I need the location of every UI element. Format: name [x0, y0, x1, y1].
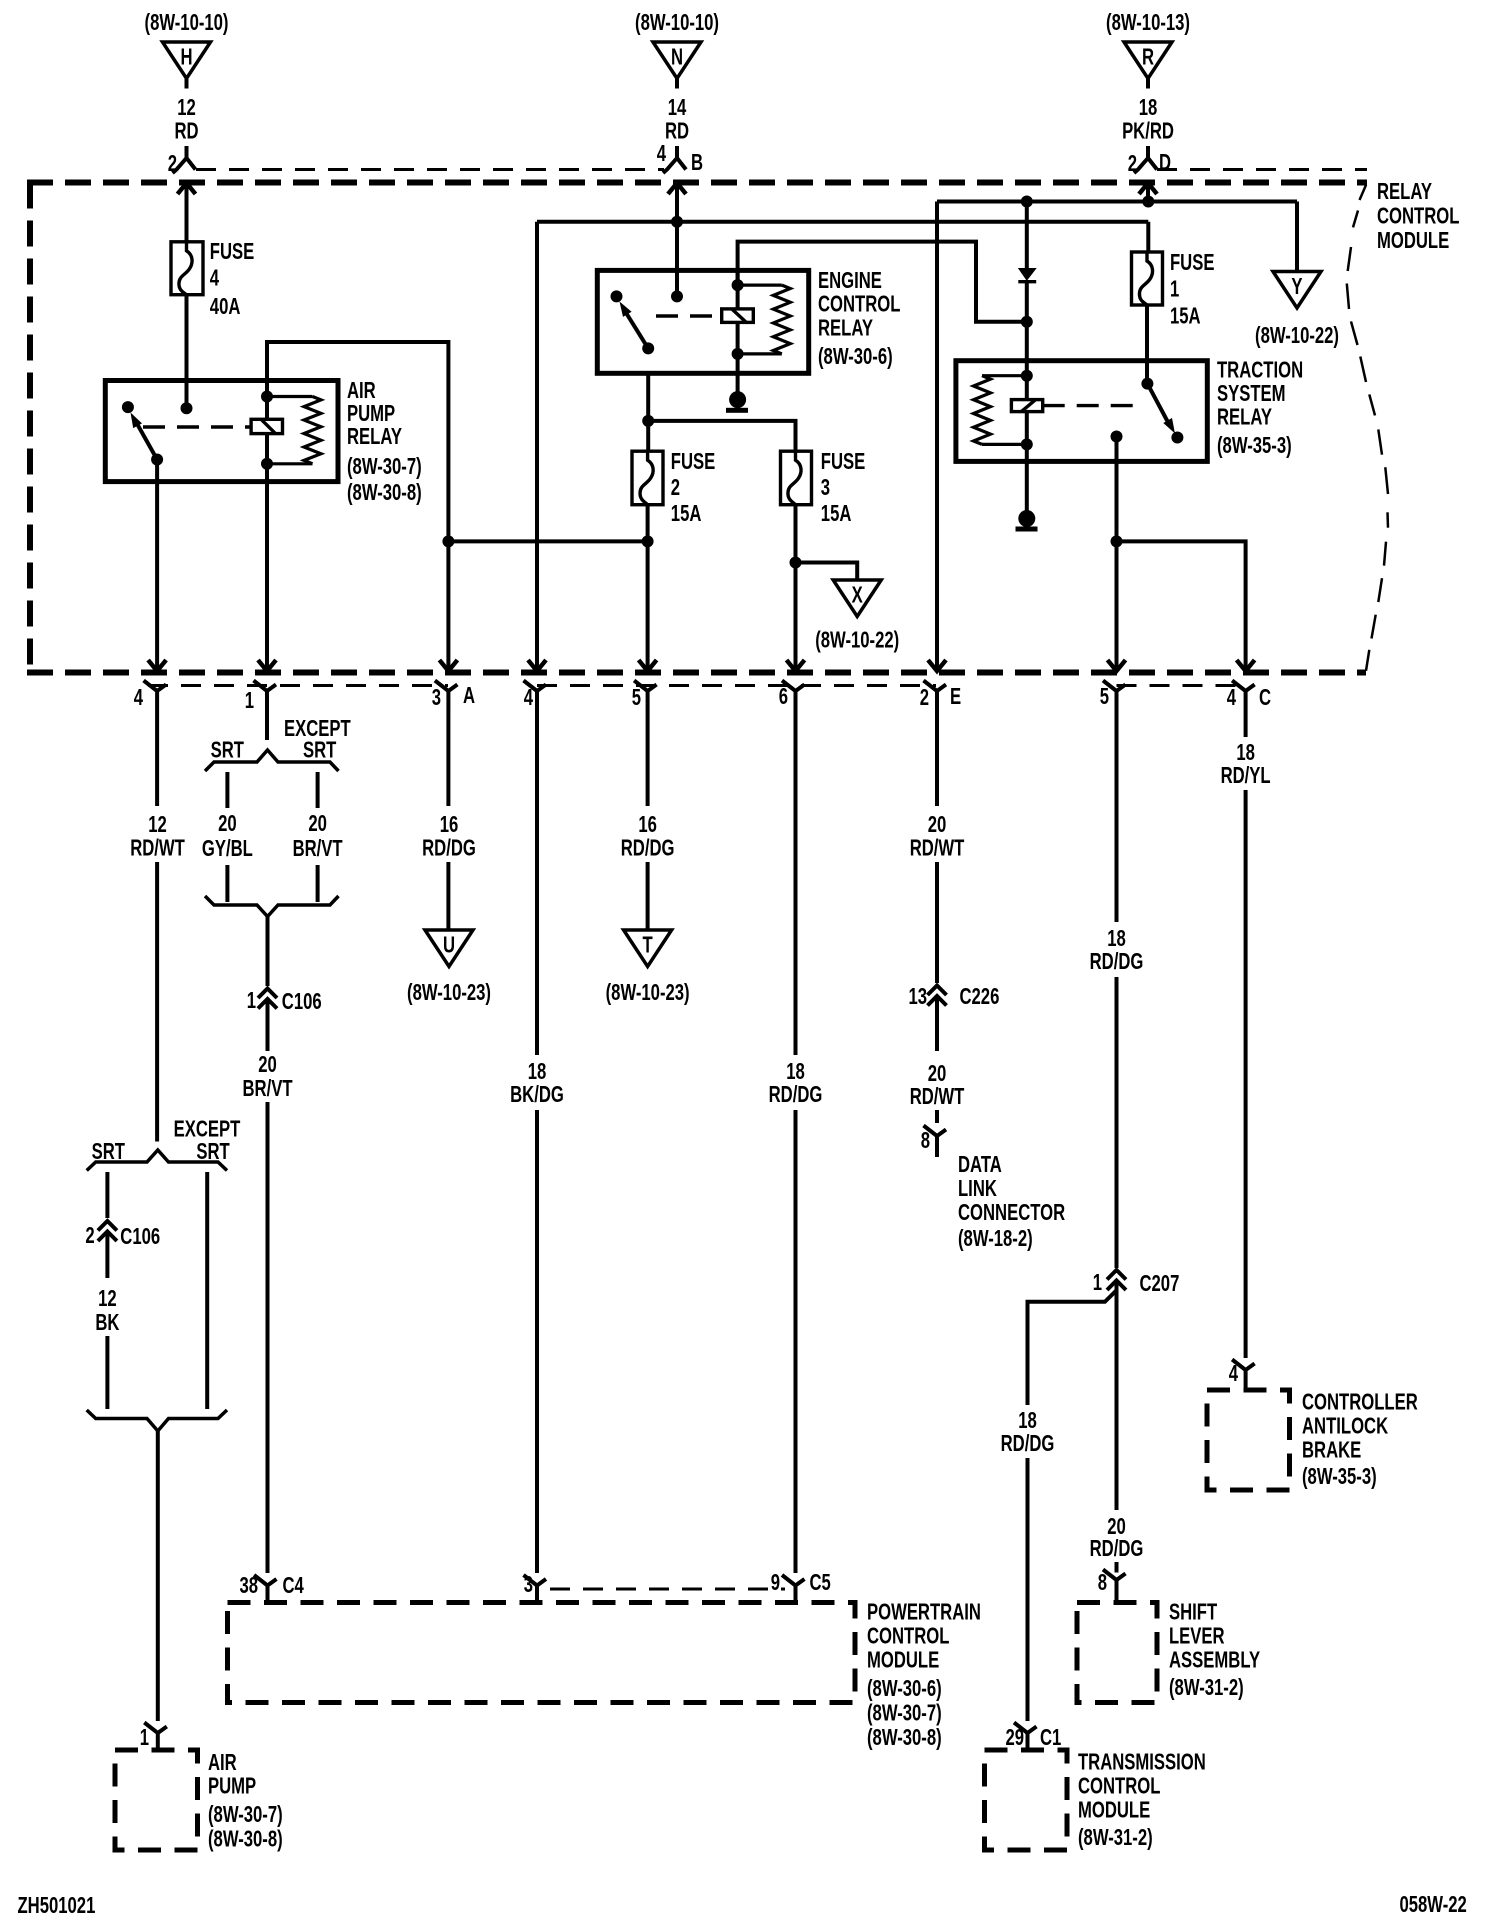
SRT / EXCEPT SRT merge brace (air pump wire)	[87, 1410, 227, 1431]
svg-text:2: 2	[85, 1223, 94, 1248]
component box: AIR PUMP	[115, 1750, 198, 1850]
component box: TRANSMISSION CONTROL MODULE	[985, 1750, 1068, 1850]
svg-text:4: 4	[1229, 1361, 1239, 1386]
svg-text:15A: 15A	[821, 501, 852, 526]
fuse F2 (FUSE 2 15A)	[632, 451, 663, 505]
module bottom pin 5 (fuse 2 output) connector	[634, 681, 657, 713]
junction fuse 2 / fuse 3 feed	[642, 415, 654, 427]
svg-text:16: 16	[638, 812, 657, 837]
inline connector C207 pin 1	[1093, 1270, 1180, 1297]
svg-text:RD/WT: RD/WT	[910, 1084, 965, 1109]
wire node B down to engine control relay	[675, 183, 679, 296]
svg-text:20: 20	[928, 812, 947, 837]
svg-text:RD/DG: RD/DG	[769, 1082, 823, 1107]
svg-text:LINK: LINK	[958, 1176, 997, 1201]
svg-text:2: 2	[920, 685, 929, 710]
svg-text:(8W-30-7): (8W-30-7)	[867, 1701, 942, 1726]
svg-text:(8W-35-3): (8W-35-3)	[1302, 1464, 1377, 1489]
svg-text:18: 18	[786, 1059, 805, 1084]
wire branch C207 to TCM (L path)	[1028, 1291, 1117, 1406]
svg-text:(8W-10-10): (8W-10-10)	[145, 10, 229, 35]
svg-text:RD: RD	[174, 119, 198, 144]
component box: SHIFT LEVER ASSEMBLY	[1077, 1603, 1157, 1703]
connector dashed line at module bottom (pins 5-4C)	[1117, 684, 1246, 687]
connector dashed line at PCM top	[550, 1588, 785, 1591]
arrow into module at node H	[178, 183, 196, 194]
module bottom pin 1 (air pump relay coil) connector	[254, 681, 277, 713]
svg-text:(8W-30-6): (8W-30-6)	[867, 1676, 942, 1701]
wire SRT branch leg	[105, 1172, 109, 1218]
wire branch to module pin 4 C	[1117, 541, 1246, 671]
svg-text:CONNECTOR: CONNECTOR	[958, 1200, 1065, 1225]
svg-text:U: U	[443, 933, 455, 958]
label POWERTRAIN CONTROL MODULE (8W-30-6) (8W-30-7) (8W-30-8)	[867, 1600, 981, 1751]
svg-text:Y: Y	[1291, 274, 1302, 299]
wire SRT leg, 20 GY/BL	[202, 772, 253, 902]
relay control module border (top, dashed)	[27, 180, 1367, 186]
svg-text:RELAY: RELAY	[1217, 405, 1272, 430]
svg-text:(8W-30-8): (8W-30-8)	[867, 1725, 942, 1750]
wire diode to junction	[1025, 282, 1029, 322]
relay control module border (left, dashed)	[27, 183, 33, 676]
svg-text:18: 18	[1139, 95, 1158, 120]
svg-text:18: 18	[1018, 1408, 1037, 1433]
wire pin 4 C down, 18 RD/YL, to controller antilock brake	[1221, 712, 1271, 1358]
wire H feed down to fuse 4	[185, 183, 189, 242]
svg-text:RELAY: RELAY	[818, 316, 873, 341]
module top pin 2, node D	[1128, 146, 1171, 177]
wire node D down to junction	[1146, 183, 1150, 202]
svg-text:SRT: SRT	[196, 1139, 230, 1164]
svg-text:C1: C1	[1040, 1725, 1061, 1750]
off-page connector N (8W-10-10)	[635, 10, 719, 78]
svg-text:BRAKE: BRAKE	[1302, 1438, 1361, 1463]
svg-text:(8W-30-7): (8W-30-7)	[347, 454, 422, 479]
arrow out of module at pin 4 (air pump relay output)	[148, 660, 166, 671]
wire H to module pin 2, 12 RD	[174, 79, 198, 145]
module bottom pin 2, node E connector	[924, 681, 947, 713]
wire merge to air pump	[156, 1431, 160, 1721]
wire junction down to traction relay coil	[1025, 322, 1029, 376]
svg-text:SRT: SRT	[211, 738, 245, 763]
svg-text:3: 3	[524, 1572, 533, 1597]
svg-text:2: 2	[1128, 151, 1137, 176]
svg-text:POWERTRAIN: POWERTRAIN	[867, 1600, 981, 1625]
wire fuse 3 to module pin 6	[794, 505, 798, 671]
label CONTROLLER ANTILOCK BRAKE (8W-35-3)	[1302, 1390, 1418, 1490]
svg-text:FUSE: FUSE	[210, 239, 254, 264]
svg-text:RD: RD	[665, 119, 689, 144]
svg-text:(8W-35-3): (8W-35-3)	[1217, 433, 1292, 458]
svg-text:RD/DG: RD/DG	[621, 836, 675, 861]
wire pin 6 down, 18 RD/DG, to PCM pin 9	[769, 712, 823, 1573]
svg-text:3: 3	[432, 685, 441, 710]
svg-text:RD/WT: RD/WT	[910, 836, 965, 861]
wire node B horizontal feed (to pin 4 drop and fuse 1)	[537, 220, 1148, 224]
svg-text:(8W-10-22): (8W-10-22)	[1255, 323, 1339, 348]
traction relay actuator dashed link	[1043, 404, 1140, 407]
svg-text:CONTROL: CONTROL	[867, 1624, 949, 1649]
svg-text:12: 12	[98, 1286, 117, 1311]
svg-text:SRT: SRT	[303, 738, 337, 763]
svg-text:1: 1	[245, 688, 254, 713]
svg-text:20: 20	[928, 1061, 947, 1086]
svg-text:20: 20	[308, 811, 327, 836]
label DATA LINK CONNECTOR (8W-18-2)	[958, 1152, 1065, 1251]
svg-text:E: E	[950, 684, 961, 709]
svg-text:CONTROL: CONTROL	[1377, 204, 1459, 229]
arrow out of module at pin 4, node C	[1237, 660, 1255, 671]
off-page connector X (8W-10-22)	[815, 580, 899, 653]
ground (engine control relay coil)	[726, 391, 748, 413]
wire pin 3 A down, 16 RD/DG	[422, 712, 476, 930]
inline connector C226 pin 13	[908, 984, 999, 1009]
svg-text:(8W-30-6): (8W-30-6)	[818, 344, 893, 369]
svg-text:X: X	[852, 583, 863, 608]
wire traction relay coil to ground	[1025, 444, 1029, 518]
svg-text:RD/DG: RD/DG	[422, 836, 476, 861]
svg-text:RD/DG: RD/DG	[1090, 949, 1144, 974]
module top pin 4, node B	[657, 141, 703, 175]
wire branch to fuse 3	[648, 421, 795, 451]
module bottom pin 4 (BK/DG feed) connector	[524, 681, 547, 713]
wire fuse 1 to traction relay switch	[1145, 305, 1149, 384]
wire air pump relay coil to module pin 1	[265, 482, 269, 671]
svg-text:ANTILOCK: ANTILOCK	[1302, 1414, 1388, 1439]
svg-text:1: 1	[1170, 277, 1179, 302]
engine relay coil wire and terminals	[732, 270, 744, 373]
module bottom pin 5 (traction output) connector	[1103, 681, 1126, 713]
wire branch to off-page X	[796, 563, 858, 581]
svg-text:(8W-10-23): (8W-10-23)	[407, 980, 491, 1005]
off-page connector R (8W-10-13)	[1106, 10, 1190, 78]
svg-text:B: B	[691, 150, 703, 175]
svg-text:C106: C106	[282, 989, 322, 1014]
svg-text:14: 14	[668, 95, 687, 120]
inline connector C106 pin 2	[85, 1221, 160, 1250]
wire pin 1 down to split	[265, 712, 269, 740]
off-page connector Y (8W-10-22)	[1255, 272, 1339, 349]
wire N to module pin 4 B, 14 RD	[665, 79, 689, 145]
svg-text:CONTROL: CONTROL	[1078, 1774, 1160, 1799]
PCM pin 38 connector C4	[239, 1573, 304, 1602]
svg-text:(8W-31-2): (8W-31-2)	[1078, 1825, 1153, 1850]
svg-text:38: 38	[239, 1573, 258, 1598]
svg-text:C207: C207	[1140, 1271, 1180, 1296]
label FUSE 4 40A	[210, 239, 254, 319]
relay: TRACTION SYSTEM RELAY box	[956, 361, 1207, 462]
relay: ENGINE CONTROL RELAY box	[597, 270, 808, 373]
svg-text:ENGINE: ENGINE	[818, 268, 882, 293]
relay: AIR PUMP RELAY box	[105, 381, 338, 482]
svg-text:PK/RD: PK/RD	[1122, 119, 1174, 144]
wire EXCEPT SRT branch leg	[205, 1172, 209, 1409]
svg-text:5: 5	[632, 685, 641, 710]
svg-text:13: 13	[908, 984, 927, 1009]
wire engine relay coil to traction junction (L path)	[738, 242, 1027, 322]
svg-text:ASSEMBLY: ASSEMBLY	[1169, 1648, 1260, 1673]
svg-text:058W-22: 058W-22	[1400, 1892, 1467, 1917]
svg-text:4: 4	[210, 266, 220, 291]
ground (traction relay coil)	[1016, 510, 1038, 532]
arrow out of module at pin 1 (air pump relay coil)	[258, 660, 276, 671]
svg-text:2: 2	[671, 475, 680, 500]
junction node B	[671, 216, 683, 228]
arrow into module at node D	[1139, 183, 1157, 194]
svg-text:ZH501021: ZH501021	[18, 1893, 96, 1918]
wire node B feed down to fuse 1	[1146, 222, 1150, 252]
wire merge down to C106	[266, 917, 270, 987]
SRT / EXCEPT SRT split brace (pin 1 wire)	[205, 716, 351, 771]
svg-text:15A: 15A	[1170, 304, 1201, 329]
svg-text:TRACTION: TRACTION	[1217, 358, 1303, 383]
wire engine relay coil to ground	[736, 373, 740, 399]
svg-text:MODULE: MODULE	[867, 1648, 939, 1673]
wire 12 BK	[95, 1232, 119, 1409]
svg-text:C: C	[1259, 685, 1271, 710]
svg-text:FUSE: FUSE	[1170, 250, 1214, 275]
svg-text:8: 8	[1098, 1570, 1107, 1595]
svg-text:C106: C106	[120, 1224, 160, 1249]
module bottom pin 4 (air pump relay output) connector	[144, 681, 167, 713]
svg-text:9: 9	[771, 1570, 780, 1595]
svg-text:20: 20	[218, 811, 237, 836]
wire EXCEPT SRT leg, 20 BR/VT	[293, 772, 343, 902]
svg-text:C226: C226	[960, 984, 1000, 1009]
svg-text:MODULE: MODULE	[1078, 1798, 1150, 1823]
wire C207 down, 20 RD/DG, to shift lever assembly	[1090, 1281, 1144, 1573]
wire 20 BR/VT to PCM	[242, 999, 292, 1573]
svg-text:20: 20	[258, 1052, 277, 1077]
svg-text:6: 6	[779, 684, 788, 709]
shift lever assembly pin 8	[1098, 1570, 1126, 1603]
junction pin 5 line / pin C branch	[1111, 535, 1123, 547]
svg-text:RELAY: RELAY	[1377, 179, 1432, 204]
svg-text:LEVER: LEVER	[1169, 1624, 1225, 1649]
wire node D horizontal (pin E drop to Y triangle drop)	[937, 200, 1297, 204]
svg-text:1: 1	[140, 1725, 149, 1750]
svg-text:RELAY: RELAY	[347, 424, 402, 449]
svg-text:(8W-31-2): (8W-31-2)	[1169, 1675, 1244, 1700]
svg-text:8: 8	[921, 1128, 930, 1153]
svg-text:RD/WT: RD/WT	[130, 836, 185, 861]
wire drop to module pin 2 E	[935, 202, 939, 672]
connector dashed line at module bottom (pins 4-1-3A)	[148, 684, 448, 687]
air pump relay common feed terminal	[181, 402, 193, 414]
label FUSE 2 15A	[671, 449, 715, 526]
svg-text:(8W-10-22): (8W-10-22)	[815, 628, 899, 653]
wire fuse 2 output to pin A line	[448, 539, 647, 543]
off-page connector H (8W-10-10)	[145, 10, 229, 78]
svg-text:H: H	[180, 45, 192, 70]
wire traction relay output to module pin 5	[1115, 437, 1119, 672]
wire engine relay switch output down	[646, 373, 650, 451]
engine relay switch arm	[620, 302, 655, 355]
label SHIFT LEVER ASSEMBLY (8W-31-2)	[1169, 1600, 1260, 1701]
inline connector C106 pin 1	[247, 988, 322, 1014]
svg-text:(8W-30-8): (8W-30-8)	[208, 1827, 283, 1852]
svg-text:BK: BK	[95, 1310, 119, 1335]
label AIR PUMP RELAY (8W-30-7) (8W-30-8)	[347, 378, 422, 505]
svg-text:RD/DG: RD/DG	[1001, 1431, 1055, 1456]
PCM pin 3 connector	[524, 1572, 547, 1602]
svg-text:(8W-30-7): (8W-30-7)	[208, 1802, 283, 1827]
wire 18 RD/DG to transmission control module	[1001, 1408, 1055, 1721]
label ENGINE CONTROL RELAY (8W-30-6)	[818, 268, 900, 369]
fuse F3 (FUSE 3 15A)	[781, 451, 812, 505]
svg-text:4: 4	[524, 685, 534, 710]
arrow out of module at pin 2, node E	[928, 660, 946, 671]
svg-text:RD/DG: RD/DG	[1090, 1536, 1144, 1561]
connector dashed line at module top (pin D to right)	[1157, 168, 1367, 171]
label TRANSMISSION CONTROL MODULE (8W-31-2)	[1078, 1750, 1206, 1851]
svg-text:(8W-10-10): (8W-10-10)	[635, 10, 719, 35]
label FUSE 3 15A	[821, 449, 865, 526]
engine relay coil parallel resistor	[738, 285, 791, 354]
svg-text:(8W-18-2): (8W-18-2)	[958, 1226, 1033, 1251]
svg-text:4: 4	[657, 141, 667, 166]
arrow out of module at pin 5 (fuse 2 output)	[639, 660, 657, 671]
off-page connector T (8W-10-23)	[606, 930, 690, 1006]
relay control module border (bottom, dashed)	[27, 670, 1366, 676]
svg-text:(8W-30-8): (8W-30-8)	[347, 480, 422, 505]
wire 20 RD/WT to data link connector	[910, 996, 965, 1123]
svg-text:FUSE: FUSE	[821, 449, 865, 474]
wire air pump relay coil top loop to pin 3 A line	[267, 342, 448, 671]
svg-text:SYSTEM: SYSTEM	[1217, 381, 1286, 406]
svg-text:15A: 15A	[671, 501, 702, 526]
svg-text:FUSE: FUSE	[671, 449, 715, 474]
svg-text:BR/VT: BR/VT	[242, 1076, 292, 1101]
traction relay coil (box with slash)	[1011, 400, 1042, 412]
svg-text:18: 18	[528, 1059, 547, 1084]
wire air pump relay switch to module pin 4	[155, 460, 159, 672]
air pump relay fixed contact	[122, 401, 134, 413]
wire drop to module pin 4 (18 BK/DG feed)	[535, 222, 539, 671]
svg-text:A: A	[463, 683, 475, 708]
svg-text:R: R	[1142, 45, 1154, 70]
module bottom pin 4, node C connector	[1232, 681, 1255, 713]
svg-text:40A: 40A	[210, 294, 241, 319]
air pump relay coil parallel resistor	[267, 397, 321, 464]
wire R to module pin 2 D, 18 PK/RD	[1122, 79, 1174, 145]
arrow out of module at pin 6 (fuse 3 output)	[787, 660, 805, 671]
PCM pin 9 connector C5	[771, 1570, 831, 1602]
air pump relay coil (box with slash)	[251, 419, 282, 433]
svg-text:2: 2	[168, 151, 177, 176]
svg-text:RD/YL: RD/YL	[1221, 763, 1271, 788]
svg-text:18: 18	[1236, 740, 1255, 765]
svg-text:12: 12	[148, 812, 167, 837]
air pump relay coil wire and terminals	[261, 381, 273, 482]
svg-text:29: 29	[1005, 1725, 1024, 1750]
svg-text:D: D	[1159, 150, 1171, 175]
traction relay switch pivot	[1141, 378, 1153, 390]
engine relay common feed terminal	[671, 290, 683, 302]
svg-text:AIR: AIR	[208, 1750, 237, 1775]
fuse F1 (FUSE 1 15A)	[1132, 252, 1163, 305]
traction relay switch arm	[1147, 384, 1183, 444]
wire fuse 2 to junction and module pin 5	[646, 505, 650, 671]
connector dashed line at module bottom (pins 4-5-6-2E)	[537, 684, 936, 687]
svg-text:12: 12	[177, 95, 196, 120]
svg-text:SHIFT: SHIFT	[1169, 1600, 1218, 1625]
svg-text:CONTROL: CONTROL	[818, 292, 900, 317]
svg-text:DATA: DATA	[958, 1152, 1002, 1177]
svg-text:MODULE: MODULE	[1377, 228, 1449, 253]
svg-text:BK/DG: BK/DG	[510, 1082, 564, 1107]
wire pin 2 E down, 20 RD/WT	[910, 712, 965, 983]
wire pin 5 down, 18 RD/DG	[1090, 712, 1144, 1268]
module top pin 2 (node H feed)	[168, 146, 196, 177]
air pump relay actuator dashed link	[143, 425, 251, 428]
TCM pin 29 connector C1	[1005, 1723, 1061, 1751]
svg-text:PUMP: PUMP	[208, 1774, 256, 1799]
svg-text:AIR: AIR	[347, 378, 376, 403]
svg-text:4: 4	[1227, 685, 1237, 710]
engine relay coil (box with slash)	[722, 309, 754, 323]
svg-text:BR/VT: BR/VT	[293, 836, 343, 861]
svg-text:(8W-10-23): (8W-10-23)	[606, 980, 690, 1005]
label FUSE 1 15A	[1170, 250, 1214, 329]
svg-text:(8W-10-13): (8W-10-13)	[1106, 10, 1190, 35]
module bottom pin labels	[134, 683, 1272, 713]
junction fuse 3 output / X branch	[790, 557, 802, 569]
data link connector pin 8	[921, 1126, 946, 1158]
connector dashed line at module top (pins 2-4)	[196, 168, 664, 171]
arrow out of module at pin 5 (traction output)	[1108, 660, 1126, 671]
label AIR PUMP (8W-30-7) (8W-30-8)	[208, 1750, 283, 1852]
wire pin 4 down, 18 BK/DG, to PCM pin 3	[510, 712, 564, 1573]
svg-text:18: 18	[1107, 926, 1126, 951]
wire fuse 4 to air pump relay common	[185, 295, 189, 409]
arrow out of module at pin 4 (BK/DG feed)	[528, 660, 546, 671]
svg-text:GY/BL: GY/BL	[202, 836, 253, 861]
traction relay coil terminals and wire	[1021, 370, 1033, 451]
svg-text:4: 4	[134, 685, 144, 710]
engine relay actuator dashed link	[656, 314, 722, 317]
label TRACTION SYSTEM RELAY (8W-35-3)	[1217, 358, 1303, 459]
arrow out of module at pin 3, node A	[439, 660, 457, 671]
traction relay coil parallel resistor	[974, 376, 1027, 445]
label RELAY CONTROL MODULE	[1377, 179, 1459, 253]
traction relay common output terminal	[1111, 431, 1123, 443]
off-page connector U (8W-10-23)	[407, 930, 491, 1006]
svg-text:N: N	[671, 45, 683, 70]
air pump relay switch arm	[131, 413, 164, 466]
junction node D	[1142, 196, 1154, 208]
diode (traction relay coil suppression)	[1018, 269, 1036, 282]
svg-text:16: 16	[440, 812, 459, 837]
wire pin 5 down, 16 RD/DG	[621, 712, 675, 930]
svg-text:3: 3	[821, 475, 830, 500]
component box: CONTROLLER ANTILOCK BRAKE	[1207, 1390, 1290, 1490]
svg-text:1: 1	[1093, 1270, 1102, 1295]
svg-text:C4: C4	[283, 1573, 305, 1598]
svg-text:T: T	[643, 933, 654, 958]
engine relay fixed contact	[611, 290, 623, 302]
relay control module border (right, torn wavy edge)	[1347, 185, 1388, 671]
wire D feed to off-page Y	[1295, 202, 1299, 272]
junction pin A line / fuse 2 line	[442, 535, 454, 547]
junction D line / diode branch	[1021, 196, 1033, 208]
junction diode output / engine coil line	[1021, 316, 1033, 328]
SRT / EXCEPT SRT split brace (air pump wire)	[87, 1117, 241, 1171]
svg-text:5: 5	[1100, 684, 1109, 709]
air pump pin 1 connector	[140, 1723, 167, 1751]
junction fuse 2 output / pin A line	[642, 535, 654, 547]
controller antilock brake pin 4	[1229, 1360, 1255, 1391]
